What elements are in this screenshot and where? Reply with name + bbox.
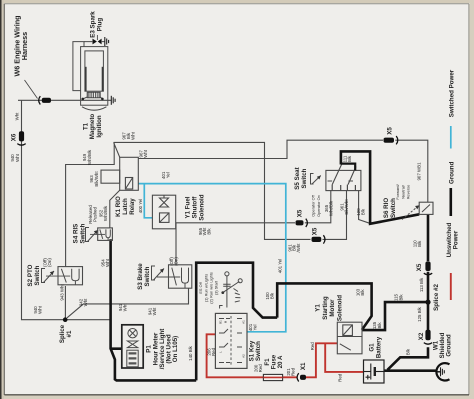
svg-text:Wht: Wht [38, 305, 43, 314]
svg-text:Switch: Switch [255, 341, 262, 361]
svg-text:Operator On: Operator On [316, 195, 321, 217]
svg-text:X5: X5 [297, 209, 304, 217]
svg-text:Blk: Blk [270, 292, 275, 299]
svg-text:Yel: Yel [252, 325, 257, 331]
svg-text:Blk: Blk [417, 240, 422, 247]
svg-text:Battery: Battery [375, 336, 382, 358]
svg-text:Wht/Blk: Wht/Blk [328, 200, 333, 216]
svg-text:Blk: Blk [361, 208, 366, 215]
svg-text:Red: Red [310, 342, 315, 351]
svg-text:943 Wht: 943 Wht [60, 284, 65, 301]
svg-text:Ignition: Ignition [96, 115, 103, 138]
svg-text:X5: X5 [416, 263, 423, 271]
svg-text:Blk: Blk [398, 294, 403, 301]
svg-text:Wht: Wht [123, 303, 128, 312]
svg-text:Red: Red [338, 373, 343, 382]
svg-text:907 WB1: 907 WB1 [417, 162, 422, 181]
svg-text:Harness: Harness [20, 32, 29, 60]
svg-text:Red: Red [258, 364, 263, 373]
svg-text:Wht: Wht [131, 131, 136, 140]
svg-text:Wht/Blk: Wht/Blk [103, 205, 108, 221]
svg-text:Switched Power: Switched Power [449, 69, 456, 117]
svg-text:125 Blk: 125 Blk [417, 306, 422, 321]
svg-text:Plug: Plug [96, 18, 103, 32]
svg-text:Switch: Switch [390, 198, 397, 218]
svg-text:Blk/Wht: Blk/Wht [94, 171, 99, 187]
svg-text:/Wht: /Wht [296, 243, 301, 253]
svg-text:Reverse: Reverse [405, 185, 410, 200]
svg-text:Blk: Blk [377, 322, 382, 329]
svg-text:X5: X5 [387, 127, 394, 135]
svg-text:401 Yel: 401 Yel [278, 259, 283, 273]
svg-text:Blk: Blk [406, 348, 411, 355]
svg-text:Pushed: Pushed [93, 207, 98, 222]
svg-text:Switch: Switch [34, 265, 41, 285]
svg-text:(On): (On) [174, 257, 179, 266]
svg-text:Blk: Blk [360, 289, 365, 296]
svg-text:X6: X6 [11, 133, 18, 141]
svg-text:A1: A1 [242, 320, 246, 324]
svg-text:Solenoid: Solenoid [336, 295, 343, 321]
svg-text:Blk/Wht: Blk/Wht [344, 199, 349, 215]
svg-text:400 Yel: 400 Yel [138, 199, 143, 213]
svg-text:Switch: Switch [80, 223, 87, 243]
svg-text:#1: #1 [66, 330, 73, 337]
svg-text:Power: Power [453, 230, 460, 249]
svg-text:Ground: Ground [446, 334, 453, 357]
svg-text:B1: B1 [219, 320, 223, 324]
svg-text:Blk: Blk [347, 155, 352, 162]
svg-text:X5: X5 [312, 227, 319, 235]
svg-text:Red: Red [291, 367, 296, 376]
svg-text:Y1: Y1 [315, 304, 322, 312]
svg-text:Starting: Starting [322, 296, 329, 320]
svg-text:Red: Red [211, 347, 216, 356]
svg-text:140 Blk: 140 Blk [188, 345, 193, 360]
svg-text:(3) Start: (3) Start [214, 280, 219, 295]
svg-text:Wht: Wht [152, 307, 157, 316]
svg-text:113 Blk: 113 Blk [419, 277, 424, 292]
svg-text:X2: X2 [418, 332, 425, 340]
svg-text:Switch: Switch [301, 168, 308, 188]
svg-text:Wht: Wht [15, 153, 20, 162]
svg-text:Wht: Wht [105, 258, 110, 267]
svg-text:X1: X1 [300, 362, 307, 370]
svg-text:Wht: Wht [14, 112, 19, 121]
svg-text:Wht/Blk: Wht/Blk [87, 149, 92, 165]
svg-text:Splice #2: Splice #2 [433, 284, 440, 311]
svg-text:Wht: Wht [143, 149, 148, 158]
svg-text:Motor: Motor [329, 299, 336, 317]
svg-text:20 A: 20 A [277, 355, 284, 368]
svg-text:(On): (On) [47, 258, 52, 267]
svg-text:Relay: Relay [129, 198, 136, 215]
svg-text:Ground: Ground [449, 161, 456, 184]
svg-text:Wht: Wht [83, 298, 88, 307]
svg-text:Solenoid: Solenoid [198, 194, 205, 220]
svg-text:A2: A2 [242, 354, 246, 358]
svg-text:Yel: Yel [165, 172, 170, 178]
svg-text:Switch: Switch [144, 266, 151, 286]
svg-text:On L105): On L105) [172, 336, 179, 362]
svg-text:Blk: Blk [207, 228, 212, 235]
